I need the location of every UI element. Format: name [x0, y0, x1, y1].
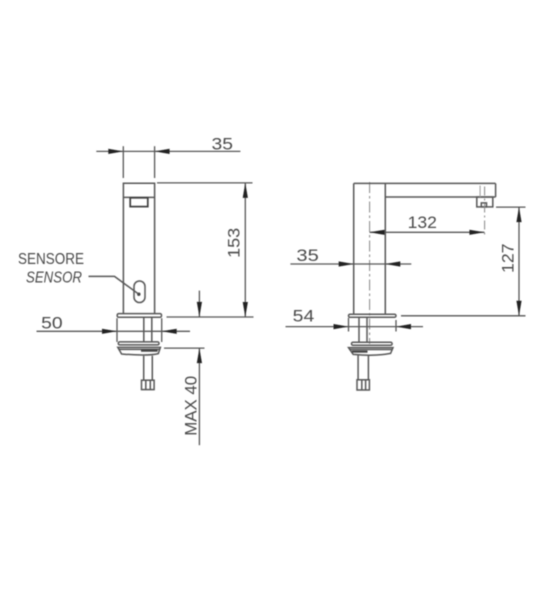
dim 35 (front) extension lines: [122, 146, 124, 178]
nozzle hidden edge: [479, 186, 481, 198]
sensor capsule: [134, 281, 145, 303]
dim MAX40 upper line + arrow: [198, 291, 200, 317]
svg-text:SENSOR: SENSOR: [26, 270, 82, 287]
spout right end: [495, 183, 497, 197]
dim 127 arrows: [516, 207, 521, 222]
locking nut (side): [349, 348, 394, 356]
aerator tip: [481, 203, 486, 207]
dim 54 extension lines: [348, 318, 350, 332]
svg-text:54: 54: [293, 307, 315, 326]
body right edge: [384, 183, 386, 314]
dim 35 (side) arrows: [339, 261, 354, 266]
threaded end cap: [142, 380, 155, 389]
nozzle centre line: [484, 187, 486, 236]
dim 153 arrows: [243, 183, 248, 198]
aerator window rect: [130, 198, 148, 207]
dim 54 arrows: [334, 324, 349, 329]
svg-text:MAX 40: MAX 40: [182, 376, 201, 436]
washer: [118, 342, 159, 345]
body cap line: [123, 196, 154, 198]
dim 35 (side) line: [290, 263, 411, 265]
base plate (side): [349, 314, 397, 317]
dim 153 extension lines: [157, 182, 253, 184]
leader line: [89, 276, 139, 294]
dim 127 line: [518, 207, 520, 316]
svg-text:35: 35: [296, 246, 318, 265]
dim 50 extension lines: [116, 318, 118, 342]
stem below plate (side): [358, 317, 360, 342]
spout top: [354, 182, 496, 184]
dim 50 line: [37, 330, 191, 332]
centre line (dash-dot): [369, 182, 371, 344]
body left edge: [353, 183, 355, 314]
svg-text:SENSORE: SENSORE: [18, 251, 84, 268]
svg-text:35: 35: [212, 135, 234, 154]
nozzle box: [477, 197, 493, 207]
rod lower segment: [143, 356, 145, 380]
faucet body outline: [123, 183, 154, 313]
rod (side): [357, 356, 359, 380]
dim 35 (front) line: [96, 150, 240, 152]
dim 35 (front) arrows: [108, 149, 123, 154]
spout bottom: [385, 196, 495, 198]
svg-text:127: 127: [498, 244, 517, 274]
dim 54 line: [286, 326, 424, 328]
dim 127 extension lines: [496, 206, 526, 208]
dim 132 arrows: [370, 230, 385, 235]
svg-text:132: 132: [408, 213, 437, 232]
washer (side): [352, 342, 393, 345]
dim MAX40 extension line: [164, 347, 205, 349]
svg-text:153: 153: [225, 228, 244, 258]
leader dot: [137, 293, 140, 296]
rod upper segment: [143, 317, 145, 342]
dim 153 line: [244, 183, 246, 317]
dim MAX40 lower line + arrow: [198, 348, 200, 445]
dim 132 line: [370, 231, 485, 233]
dim 50 arrows: [102, 329, 117, 334]
base plate: [117, 314, 161, 318]
locking nut: [118, 347, 161, 355]
threaded end cap (side): [357, 380, 369, 390]
svg-text:50: 50: [41, 313, 62, 332]
